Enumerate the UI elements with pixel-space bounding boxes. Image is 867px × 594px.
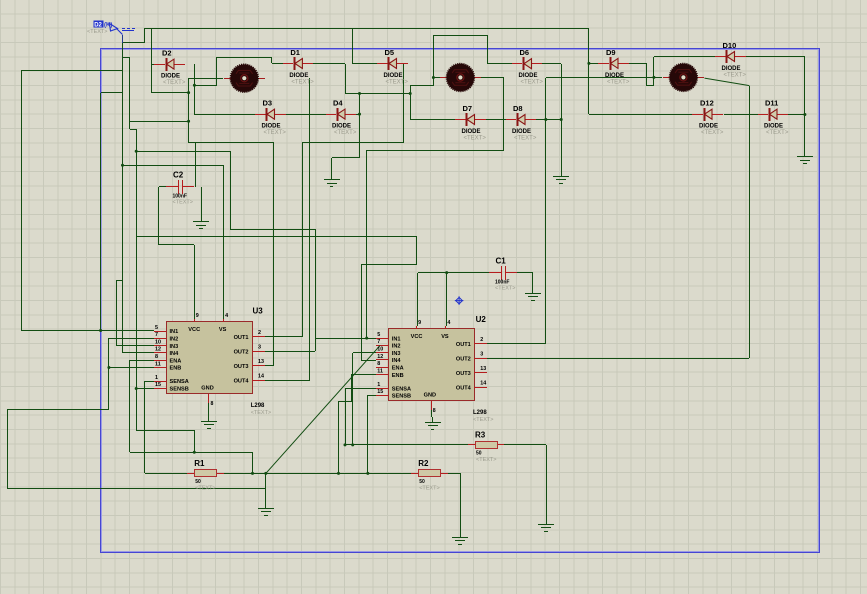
svg-text:D8: D8 xyxy=(513,104,523,113)
svg-text:<TEXT>: <TEXT> xyxy=(419,485,439,491)
svg-text:8: 8 xyxy=(377,361,380,367)
svg-text:<TEXT>: <TEXT> xyxy=(173,200,193,206)
svg-text:50: 50 xyxy=(419,479,425,485)
svg-text:R2: R2 xyxy=(418,459,429,468)
svg-text:D2: D2 xyxy=(162,49,172,58)
svg-text:<TEXT>: <TEXT> xyxy=(495,286,515,292)
svg-text:11: 11 xyxy=(155,361,161,367)
svg-text:OUT3: OUT3 xyxy=(456,371,471,377)
svg-text:7: 7 xyxy=(377,339,380,345)
svg-text:1: 1 xyxy=(377,382,380,388)
svg-text:DIODE: DIODE xyxy=(332,124,351,130)
svg-text:DIODE: DIODE xyxy=(764,124,783,130)
svg-text:9: 9 xyxy=(418,320,421,326)
svg-text:GND: GND xyxy=(424,393,436,399)
svg-text:<TEXT>: <TEXT> xyxy=(334,130,357,136)
svg-text:<TEXT>: <TEXT> xyxy=(163,80,186,86)
svg-text:ENA: ENA xyxy=(392,366,404,372)
svg-text:4: 4 xyxy=(225,313,228,319)
svg-text:U2: U2 xyxy=(476,315,487,324)
svg-text:VCC: VCC xyxy=(411,334,423,340)
svg-text:50: 50 xyxy=(195,479,201,485)
svg-text:R3: R3 xyxy=(475,430,486,439)
svg-text:9: 9 xyxy=(196,313,199,319)
svg-text:5: 5 xyxy=(377,332,380,338)
svg-text:DIODE: DIODE xyxy=(722,66,741,72)
svg-text:12: 12 xyxy=(155,347,161,353)
svg-text:OUT1: OUT1 xyxy=(456,342,471,348)
svg-text:<TEXT>: <TEXT> xyxy=(291,80,314,86)
svg-text:DIODE: DIODE xyxy=(512,129,531,135)
svg-text:DIODE: DIODE xyxy=(262,124,281,130)
svg-text:D1: D1 xyxy=(290,48,300,57)
svg-text:IN1: IN1 xyxy=(170,329,179,335)
svg-text:1: 1 xyxy=(155,375,158,381)
svg-text:D9: D9 xyxy=(606,48,616,57)
svg-text:IN3: IN3 xyxy=(392,351,401,357)
svg-text:C2: C2 xyxy=(173,171,184,180)
svg-text:L298: L298 xyxy=(251,403,265,409)
svg-text:D2: D2 xyxy=(94,23,102,29)
svg-text:13: 13 xyxy=(480,366,486,372)
svg-text:D12: D12 xyxy=(700,99,714,108)
svg-text:IN4: IN4 xyxy=(392,358,402,364)
svg-text:<TEXT>: <TEXT> xyxy=(476,457,496,463)
svg-text:GND: GND xyxy=(201,386,213,392)
svg-text:5: 5 xyxy=(155,325,158,331)
svg-text:<TEXT>: <TEXT> xyxy=(264,130,287,136)
svg-text:D3: D3 xyxy=(263,99,273,108)
svg-text:2: 2 xyxy=(480,337,483,343)
svg-text:IN1: IN1 xyxy=(392,336,401,342)
svg-text:14: 14 xyxy=(480,381,486,387)
svg-text:(K): (K) xyxy=(104,23,112,29)
svg-text:DIODE: DIODE xyxy=(605,73,624,79)
svg-text:ENA: ENA xyxy=(170,358,182,364)
svg-text:3: 3 xyxy=(480,351,483,357)
svg-text:3: 3 xyxy=(258,344,261,350)
svg-text:D7: D7 xyxy=(463,104,473,113)
svg-text:15: 15 xyxy=(377,389,383,395)
svg-text:OUT4: OUT4 xyxy=(456,386,472,392)
svg-text:IN2: IN2 xyxy=(392,344,401,350)
svg-text:<TEXT>: <TEXT> xyxy=(386,80,409,86)
svg-text:DIODE: DIODE xyxy=(519,73,538,79)
svg-text:ENB: ENB xyxy=(170,366,182,372)
svg-text:OUT1: OUT1 xyxy=(234,335,249,341)
svg-text:<TEXT>: <TEXT> xyxy=(87,29,107,35)
svg-text:7: 7 xyxy=(155,332,158,338)
svg-text:R1: R1 xyxy=(194,459,205,468)
svg-text:<TEXT>: <TEXT> xyxy=(514,136,537,142)
svg-text:OUT3: OUT3 xyxy=(234,364,249,370)
svg-text:VCC: VCC xyxy=(188,327,200,333)
svg-text:8: 8 xyxy=(211,401,214,407)
svg-text:OUT2: OUT2 xyxy=(234,349,249,355)
svg-text:IN4: IN4 xyxy=(170,351,180,357)
svg-text:<TEXT>: <TEXT> xyxy=(195,485,215,491)
svg-text:OUT4: OUT4 xyxy=(234,378,250,384)
svg-text:<TEXT>: <TEXT> xyxy=(251,410,271,416)
svg-text:11: 11 xyxy=(377,368,383,374)
svg-text:SENSB: SENSB xyxy=(170,387,189,393)
svg-text:<TEXT>: <TEXT> xyxy=(521,80,544,86)
svg-text:<TEXT>: <TEXT> xyxy=(766,130,789,136)
svg-text:DIODE: DIODE xyxy=(462,129,481,135)
svg-text:4: 4 xyxy=(447,320,450,326)
svg-text:<TEXT>: <TEXT> xyxy=(724,73,747,79)
svg-text:<TEXT>: <TEXT> xyxy=(607,79,630,85)
svg-text:IN3: IN3 xyxy=(170,344,179,350)
svg-text:10: 10 xyxy=(377,347,383,353)
svg-text:VS: VS xyxy=(219,327,227,333)
svg-text:D11: D11 xyxy=(765,99,778,108)
svg-text:SENSA: SENSA xyxy=(392,386,411,392)
svg-text:8: 8 xyxy=(433,408,436,414)
svg-text:DIODE: DIODE xyxy=(289,73,308,79)
svg-text:14: 14 xyxy=(258,373,264,379)
svg-text:VS: VS xyxy=(441,334,449,340)
svg-text:15: 15 xyxy=(155,382,161,388)
svg-text:ENB: ENB xyxy=(392,373,404,379)
svg-text:<TEXT>: <TEXT> xyxy=(464,136,487,142)
svg-text:2: 2 xyxy=(258,330,261,336)
svg-text:<TEXT>: <TEXT> xyxy=(473,417,493,423)
svg-text:10: 10 xyxy=(155,339,161,345)
svg-text:13: 13 xyxy=(258,359,264,365)
svg-text:L298: L298 xyxy=(473,410,487,416)
svg-text:SENSB: SENSB xyxy=(392,394,411,400)
svg-text:D4: D4 xyxy=(333,99,343,108)
svg-text:<TEXT>: <TEXT> xyxy=(701,130,724,136)
svg-text:SENSA: SENSA xyxy=(170,379,189,385)
svg-text:DIODE: DIODE xyxy=(384,73,403,79)
svg-text:D10: D10 xyxy=(723,41,737,50)
svg-text:U3: U3 xyxy=(253,307,264,316)
svg-text:50: 50 xyxy=(476,450,482,456)
svg-text:D6: D6 xyxy=(520,48,530,57)
svg-text:D5: D5 xyxy=(385,48,395,57)
svg-text:DIODE: DIODE xyxy=(699,124,718,130)
svg-text:12: 12 xyxy=(377,354,383,360)
svg-text:8: 8 xyxy=(155,354,158,360)
svg-text:IN2: IN2 xyxy=(170,337,179,343)
svg-text:OUT2: OUT2 xyxy=(456,356,471,362)
svg-text:C1: C1 xyxy=(496,257,507,266)
svg-text:DIODE: DIODE xyxy=(161,74,180,80)
